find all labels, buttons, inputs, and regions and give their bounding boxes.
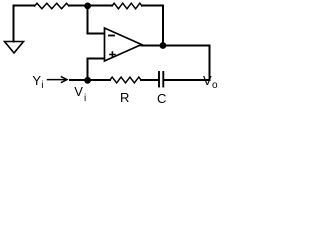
wire top-left corner to resistor R1 xyxy=(14,6,35,42)
op-amp plus label xyxy=(110,52,115,57)
label Yi xyxy=(32,73,41,88)
node Vi (junction dot, bottom) xyxy=(84,77,91,84)
ground xyxy=(5,42,24,54)
wire op-amp output to node B xyxy=(142,45,164,47)
input arrow Yi xyxy=(48,79,66,81)
node B (output junction dot) xyxy=(160,42,167,49)
wire arrow to node Vi xyxy=(70,79,88,81)
wire capacitor to right corner xyxy=(165,79,210,81)
label Vi xyxy=(74,84,83,99)
op-amp minus label xyxy=(109,35,114,37)
wire node A to resistor R2 xyxy=(88,5,113,7)
resistor R2 (top right, feedback) xyxy=(112,3,142,9)
wire noninverting input xyxy=(88,59,105,81)
wire R1 to node A xyxy=(69,5,88,7)
node A (junction dot, top) xyxy=(84,3,91,10)
wire R2 to feedback corner and down to output node xyxy=(142,6,163,46)
wire node Vi to resistor R xyxy=(88,79,111,81)
label C xyxy=(157,91,166,106)
wire node B to right corner and down to Vo xyxy=(163,46,210,81)
resistor R1 (top left) xyxy=(35,3,70,9)
wire node A down to inverting input xyxy=(88,6,105,34)
capacitor C plates xyxy=(158,72,160,87)
label Vo xyxy=(203,73,212,88)
wire R to capacitor C xyxy=(141,79,158,81)
label R xyxy=(120,90,129,105)
resistor R (bottom) xyxy=(110,77,141,83)
op-amp U1 xyxy=(105,28,142,61)
